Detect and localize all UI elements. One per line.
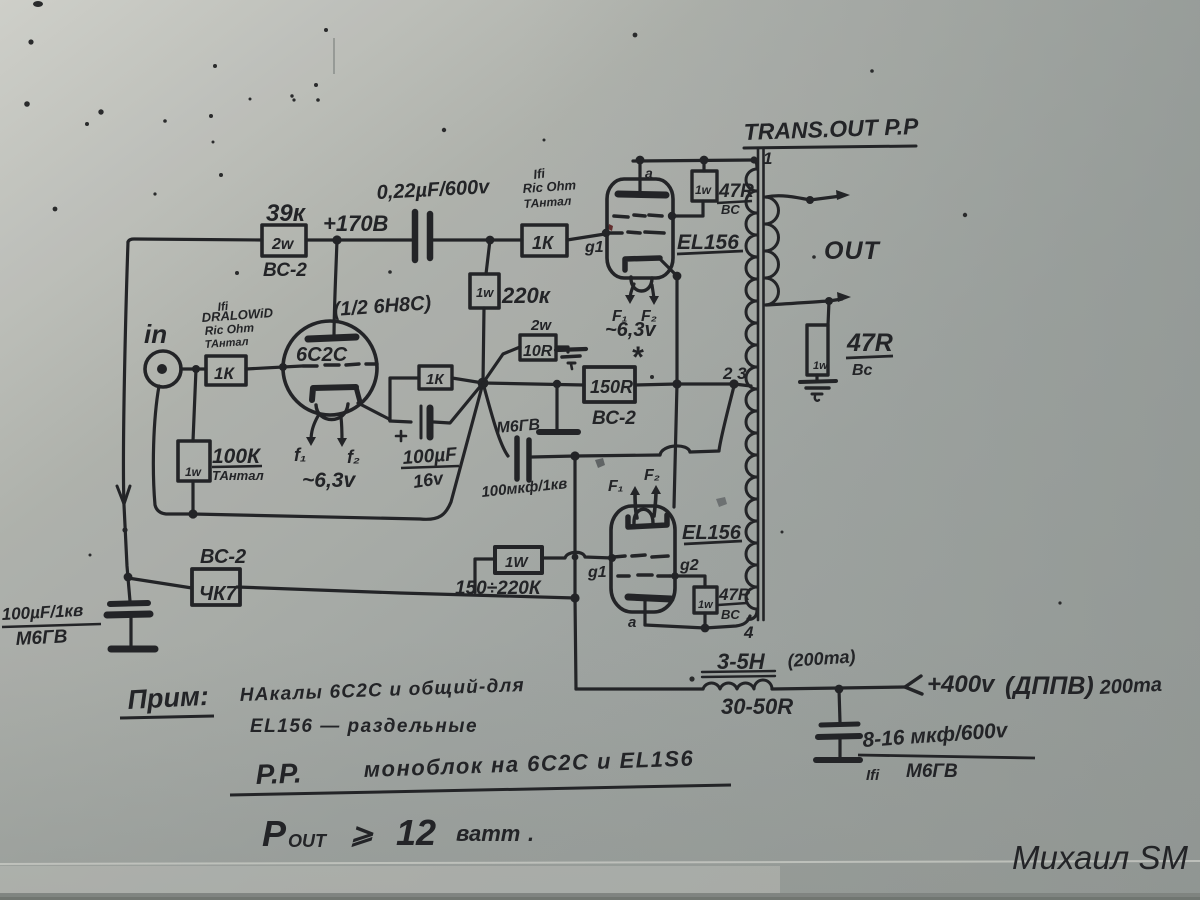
svg-text:ТАнтал: ТАнтал xyxy=(212,468,264,483)
g2 dashes upper tube xyxy=(614,215,662,217)
resistor R9 4K7 BC-2 xyxy=(192,569,240,605)
svg-text:+400v: +400v xyxy=(927,671,996,698)
heater arrow f2 xyxy=(341,417,342,442)
anode bar lower tube xyxy=(628,597,671,599)
wire 1K to g1 top EL156 xyxy=(567,234,605,240)
node M6GV stub xyxy=(553,380,561,388)
svg-text:F₂: F₂ xyxy=(644,467,660,484)
reddish fleck on top tube wall xyxy=(608,224,613,231)
heater arrow F2 upper xyxy=(652,285,654,300)
svg-text:М6ГВ: М6ГВ xyxy=(15,626,68,650)
svg-text:2 3: 2 3 xyxy=(722,364,747,383)
wire jack shield down xyxy=(153,386,193,514)
svg-text:BC: BC xyxy=(721,202,740,217)
svg-text:47R: 47R xyxy=(846,329,893,357)
capacitor C2 100uF/16v electrolytic xyxy=(390,421,411,422)
svg-text:OUT: OUT xyxy=(824,237,882,265)
plate bar upper tube xyxy=(618,194,666,195)
plate bar 6C2C xyxy=(308,337,356,339)
svg-text:2w: 2w xyxy=(530,317,552,334)
svg-text:Ifi: Ifi xyxy=(866,767,880,784)
wire hump crossing xyxy=(660,446,690,455)
svg-text:*: * xyxy=(631,341,644,374)
wire secondary bottom out xyxy=(766,301,829,305)
wire tap to winding xyxy=(734,384,751,386)
svg-text:Bc: Bc xyxy=(852,362,873,379)
choke L1 wire from riser xyxy=(576,687,703,690)
svg-text:1w: 1w xyxy=(476,285,494,300)
input jack xyxy=(145,351,181,387)
node after C1 xyxy=(486,236,495,245)
svg-text:ЧК7: ЧК7 xyxy=(199,583,237,605)
node X junction xyxy=(478,378,489,389)
node shield/100K xyxy=(188,509,197,518)
svg-text:1К: 1К xyxy=(214,364,235,383)
svg-text:.: . xyxy=(528,821,534,846)
cathode wire to 1K bypass xyxy=(358,378,419,421)
wire g2 to 47R xyxy=(670,576,705,587)
transformer secondary winding xyxy=(765,197,779,305)
resistor R11 47R 1w lower xyxy=(694,587,717,613)
svg-text:Р.Р.: Р.Р. xyxy=(255,757,302,790)
anode lead upper tube xyxy=(638,160,641,192)
svg-text:1К: 1К xyxy=(426,371,445,388)
wire 39K to node +170V xyxy=(306,238,412,241)
resistor R13 47R 1w output xyxy=(828,301,829,325)
svg-text:g1: g1 xyxy=(587,564,607,581)
wire anode to pin4 xyxy=(645,616,750,628)
wire g2 to 47R upper xyxy=(672,201,703,216)
cathode 6C2C xyxy=(312,387,356,400)
svg-text:200ma: 200ma xyxy=(1098,674,1162,699)
svg-text:(ДППВ): (ДППВ) xyxy=(1005,672,1094,700)
svg-text:f₂: f₂ xyxy=(347,447,360,467)
resistor R6 220K 1w xyxy=(486,240,490,274)
svg-text:6С2С: 6С2С xyxy=(296,344,348,366)
resistor R12 47R 1w upper xyxy=(692,171,717,201)
svg-text:12: 12 xyxy=(396,812,436,853)
wire secondary top out xyxy=(766,196,810,200)
wire B+ riser xyxy=(575,456,576,689)
transformer primary winding xyxy=(746,169,757,609)
svg-text:150÷220К: 150÷220К xyxy=(455,578,542,599)
svg-text:39к: 39к xyxy=(266,200,307,227)
resistor R1 39K 2w BC-2 xyxy=(262,225,306,256)
svg-text:150R: 150R xyxy=(590,377,633,397)
triode V1 6C2C envelope xyxy=(283,321,377,415)
svg-text:~6,3v: ~6,3v xyxy=(302,469,356,492)
svg-text:f₁: f₁ xyxy=(294,445,306,465)
svg-text:1w: 1w xyxy=(695,183,712,197)
resistor R2 1K input xyxy=(206,356,246,385)
svg-text:1: 1 xyxy=(763,149,772,168)
pentode V2 EL156 upper envelope xyxy=(607,179,673,278)
svg-text:10R: 10R xyxy=(523,343,553,360)
cathode bracket lower tube xyxy=(628,515,667,527)
g2 dashes lower tube xyxy=(618,575,670,576)
pentode V3 EL156 lower envelope xyxy=(611,506,675,612)
choke L1 winding xyxy=(703,680,772,689)
node tap 2-3 xyxy=(729,379,738,388)
svg-text:М6ГВ: М6ГВ xyxy=(906,761,958,782)
wire 4K7 feedback line xyxy=(237,587,575,598)
svg-text:+170В: +170В xyxy=(323,211,389,236)
transformer T1 core xyxy=(757,149,760,620)
capacitor C3 100mkf/1kv coupling xyxy=(483,383,508,456)
wire common to X junction xyxy=(193,383,483,519)
small gray blobs (photo artifacts) xyxy=(595,458,605,468)
resistor R3 100K 1w xyxy=(193,369,196,441)
svg-text:BC: BC xyxy=(721,607,740,622)
resistor R4 1K cathode xyxy=(419,366,452,389)
wire cathode bus down xyxy=(674,276,677,507)
svg-text:220к: 220к xyxy=(501,283,552,308)
cathode bar upper tube xyxy=(625,258,660,270)
svg-text:4: 4 xyxy=(743,623,754,642)
svg-text:100К: 100К xyxy=(212,445,262,468)
wire top bus to 39K xyxy=(128,239,262,242)
svg-text:47R: 47R xyxy=(718,181,754,202)
wire top bus anode/pin1 xyxy=(633,160,754,161)
resistor R10 1W 150-220K grid xyxy=(495,547,542,573)
capacitor C5 8-16mkf/600v xyxy=(839,689,840,722)
B+ arrow xyxy=(905,676,922,694)
heater arc lower tube xyxy=(634,509,653,524)
heater arrow f1 xyxy=(311,416,318,441)
svg-text:a: a xyxy=(645,165,653,181)
heater arrow F1 lower xyxy=(635,492,637,518)
svg-text:in: in xyxy=(144,319,167,349)
svg-text:30-50R: 30-50R xyxy=(721,694,793,719)
svg-text:ВС-2: ВС-2 xyxy=(592,408,636,429)
g1 dashes upper tube xyxy=(610,232,664,233)
wire 1K to 6C2C grid xyxy=(246,366,302,369)
heater arc 6C2C xyxy=(316,404,348,420)
svg-text:1W: 1W xyxy=(505,554,529,571)
svg-text:P: P xyxy=(262,813,287,854)
node +170V xyxy=(332,235,341,244)
wire X to 150R xyxy=(483,383,584,385)
M6GV stub bar xyxy=(555,384,558,429)
svg-text:ВС-2: ВС-2 xyxy=(263,260,307,281)
svg-text:16v: 16v xyxy=(412,468,446,492)
wire left rail xyxy=(123,242,130,601)
choke core bars xyxy=(702,671,775,677)
resistor R8 150R BC-2 xyxy=(584,367,635,402)
resistor R7 10R 2w xyxy=(483,347,520,383)
node B+ riser top xyxy=(570,451,579,460)
svg-text:ватт: ватт xyxy=(456,821,520,846)
wire pin4 curl xyxy=(748,611,757,619)
wire anode lead 6C2C xyxy=(334,240,337,338)
title underline TRANS.OUT xyxy=(744,146,916,148)
svg-text:~6,3v: ~6,3v xyxy=(605,319,657,341)
capacitor C4 100uF/1kv to ground xyxy=(110,603,148,604)
heater arc upper tube xyxy=(631,277,652,291)
ground output xyxy=(800,381,836,382)
photo bottom edge xyxy=(0,861,1200,864)
svg-text:47R: 47R xyxy=(718,585,751,604)
grid dashes 6C2C xyxy=(303,364,377,366)
node cathode bus xyxy=(672,379,681,388)
svg-text:Прим:: Прим: xyxy=(127,681,210,715)
capacitor C1 0,22uF/600v xyxy=(412,212,419,260)
svg-text:1w: 1w xyxy=(185,465,202,479)
svg-text:2w: 2w xyxy=(271,236,295,253)
wire jack to node xyxy=(181,367,206,370)
svg-text:3-5H: 3-5H xyxy=(717,649,766,674)
svg-text:g2: g2 xyxy=(679,557,699,574)
ground (near 10R) xyxy=(556,349,586,350)
svg-text:1w: 1w xyxy=(813,360,829,372)
heater arrow F2 lower xyxy=(654,491,656,516)
svg-text:Михаил SM: Михаил SM xyxy=(1012,839,1188,876)
arrow on left rail xyxy=(117,486,130,504)
svg-text:1w: 1w xyxy=(698,599,714,611)
resistor R5 1K (top grid stopper) xyxy=(522,225,567,256)
svg-text:OUT: OUT xyxy=(288,831,328,851)
wire to transformer pin1 xyxy=(754,160,757,169)
wire tap down to B+ line xyxy=(690,386,734,452)
heater arrow F1 upper xyxy=(630,284,634,299)
svg-text:g1: g1 xyxy=(584,239,604,256)
wire choke to B+ xyxy=(772,687,905,689)
svg-text:ВС-2: ВС-2 xyxy=(200,546,246,568)
svg-text:F₁: F₁ xyxy=(608,478,623,495)
wire cap to node xyxy=(432,238,522,241)
svg-text:⩾: ⩾ xyxy=(350,818,374,849)
cathode lead upper xyxy=(660,259,677,276)
svg-text:1К: 1К xyxy=(532,233,555,253)
svg-text:a: a xyxy=(628,614,636,631)
svg-text:EL156 — раздельные: EL156 — раздельные xyxy=(250,716,478,737)
g1 dashes lower tube xyxy=(614,555,668,557)
